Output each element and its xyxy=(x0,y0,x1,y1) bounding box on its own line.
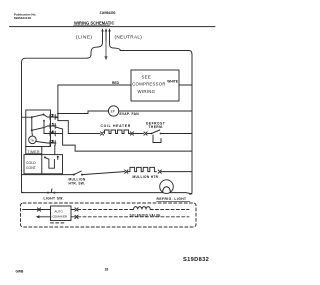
label REFRIG. LIGHT xyxy=(157,197,187,201)
wire terminal 1 to right bus xyxy=(56,127,192,151)
wire right bus xyxy=(190,55,192,194)
refrigerator light lamp xyxy=(160,180,174,194)
cold control switch xyxy=(44,156,46,158)
svg-text:5995321148: 5995321148 xyxy=(14,16,31,20)
label COIL HEATER xyxy=(101,124,131,128)
label (LINE) xyxy=(76,34,93,39)
svg-text:HTR. SW.: HTR. SW. xyxy=(69,182,86,186)
svg-text:CONT.: CONT. xyxy=(26,166,37,170)
svg-text:(LINE): (LINE) xyxy=(76,34,93,39)
wire white row compressor to right bus xyxy=(179,84,192,86)
connector x after mullion heater xyxy=(158,170,161,173)
svg-text:216954300: 216954300 xyxy=(100,11,116,15)
icemaker right wire row 1 xyxy=(71,209,75,211)
title underline xyxy=(74,24,111,26)
defrost thermostat sensing bracket xyxy=(153,135,161,143)
timer terminal 1 xyxy=(48,124,57,129)
solenoid valve coil xyxy=(134,207,151,210)
evap fan motor xyxy=(108,106,118,116)
svg-text:COMPRESSOR: COMPRESSOR xyxy=(132,82,166,87)
svg-text:MULLION HTR: MULLION HTR xyxy=(133,175,159,179)
power cord prong (neutral) xyxy=(108,28,111,31)
wire mullion heater to right bus xyxy=(161,171,192,173)
svg-text:AUTO: AUTO xyxy=(55,209,64,213)
prong arrowhead line xyxy=(101,28,104,31)
connector x after resistor xyxy=(130,132,133,135)
label EVAP. FAN xyxy=(120,112,140,116)
power cord prong line (line) xyxy=(22,30,103,63)
diagram number S19D832 xyxy=(183,257,209,263)
ground wire with arrow xyxy=(105,41,107,57)
timer terminal 4 xyxy=(48,131,57,136)
publication number text xyxy=(14,12,37,20)
icemaker box xyxy=(51,206,72,221)
svg-text:(NEUTRAL): (NEUTRAL) xyxy=(115,35,143,40)
wire defrost row to right bus xyxy=(161,133,193,135)
power cord prong (ground) xyxy=(105,28,108,31)
footer initials xyxy=(16,270,24,274)
timer terminal 3 xyxy=(48,141,57,146)
svg-text:18: 18 xyxy=(105,268,109,272)
svg-text:ICEMAKER: ICEMAKER xyxy=(52,214,69,218)
title WIRING SCHEMATIC xyxy=(74,21,114,26)
wire light switch row xyxy=(22,193,193,194)
label (NEUTRAL) xyxy=(115,35,143,40)
timer terminal 2 xyxy=(48,115,57,120)
wire neutral top run to right bus xyxy=(120,51,192,56)
svg-text:LIGHT SW.: LIGHT SW. xyxy=(44,196,64,200)
svg-text:TM: TM xyxy=(30,138,34,142)
timer motor TM xyxy=(29,136,37,144)
wire evap fan to right bus xyxy=(119,110,192,112)
timer box xyxy=(26,110,51,147)
svg-text:EF: EF xyxy=(111,110,115,114)
wire evap fan row from terminal 2 xyxy=(56,111,109,117)
mullion heater resistor (square wave) xyxy=(128,167,157,171)
svg-text:WHITE: WHITE xyxy=(167,80,178,84)
wire red drop to timer terminal 2 xyxy=(56,85,58,121)
top rule xyxy=(10,26,216,28)
connector x on coil row xyxy=(101,132,104,135)
svg-text:TIMER: TIMER xyxy=(27,150,40,154)
svg-text:EVAP. FAN: EVAP. FAN xyxy=(120,112,140,116)
connector x row1 left xyxy=(37,208,40,211)
part number text xyxy=(100,11,116,15)
svg-text:WIRING: WIRING xyxy=(138,89,156,94)
connector x right row1 xyxy=(75,208,78,211)
wire left bus to timer contact xyxy=(22,116,32,118)
label MULLION HTR xyxy=(133,175,159,179)
wire terminal 3 to cold control xyxy=(54,145,56,154)
timer internal contacts xyxy=(31,116,33,118)
mullion heater switch xyxy=(73,174,75,176)
wire mullion switch to heater xyxy=(82,172,125,175)
connector x before mullion heater xyxy=(125,170,128,173)
defrost heater resistor (square wave) xyxy=(105,130,131,134)
svg-text:GWB: GWB xyxy=(16,270,24,274)
icemaker left wire row 2 with arrow xyxy=(39,216,51,218)
label WHITE xyxy=(167,80,178,84)
svg-text:THERM.: THERM. xyxy=(149,125,164,129)
wire red row to compressor xyxy=(58,84,131,86)
dashed stub under icemaker box xyxy=(51,222,65,224)
icemaker right wire row 2 xyxy=(71,216,75,218)
svg-text:COLD: COLD xyxy=(26,161,36,165)
label DEFROST THERM. xyxy=(146,121,165,129)
icemaker dashed enclosure xyxy=(21,203,197,227)
cold control box xyxy=(24,155,63,174)
svg-text:COIL HEATER: COIL HEATER xyxy=(101,124,131,128)
page number 18 xyxy=(105,268,109,272)
wire left bus xyxy=(22,63,24,193)
connector x before defrost thermostat xyxy=(144,132,147,135)
svg-text:S19D832: S19D832 xyxy=(183,257,209,263)
wire mullion heater row from left bus xyxy=(22,174,74,176)
icemaker left wire row 1 xyxy=(23,209,51,211)
light switch xyxy=(47,192,49,194)
label RED xyxy=(112,81,120,85)
wire terminal 4 stub xyxy=(56,133,63,135)
connector x right row2 xyxy=(75,215,78,218)
defrost thermostat switch xyxy=(150,133,152,135)
svg-text:RED: RED xyxy=(112,81,120,85)
svg-text:REFRIG. LIGHT: REFRIG. LIGHT xyxy=(157,197,187,201)
svg-text:SEE: SEE xyxy=(142,74,152,79)
compressor box U1 xyxy=(131,70,179,101)
wire junction to coil heater row xyxy=(58,121,100,134)
